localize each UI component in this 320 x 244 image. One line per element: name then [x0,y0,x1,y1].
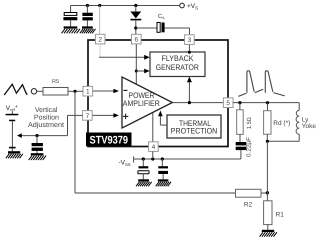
svg-text:3: 3 [188,37,192,44]
svg-text:R1: R1 [276,211,285,218]
svg-text:Adjustment: Adjustment [28,121,64,129]
svg-text:Rd (*): Rd (*) [273,120,290,127]
svg-text:6: 6 [134,37,138,44]
svg-text:1.5Ω: 1.5Ω [246,117,253,129]
svg-text:Yoke: Yoke [302,123,317,130]
svg-text:PROTECTION: PROTECTION [171,126,218,135]
svg-text:R5: R5 [52,79,59,85]
svg-text:4: 4 [152,144,156,151]
svg-text:5: 5 [226,100,230,107]
svg-text:STV9379: STV9379 [90,134,129,146]
svg-text:R2: R2 [244,201,253,208]
svg-text:Vertical: Vertical [35,106,58,114]
svg-text:2: 2 [98,37,102,44]
svg-text:1: 1 [86,89,90,96]
svg-text:GENERATOR: GENERATOR [156,63,199,72]
svg-text:Position: Position [34,114,59,122]
svg-text:0.22μF: 0.22μF [246,137,253,157]
svg-text:7: 7 [86,113,90,120]
svg-text:AMPLIFIER: AMPLIFIER [123,99,160,108]
